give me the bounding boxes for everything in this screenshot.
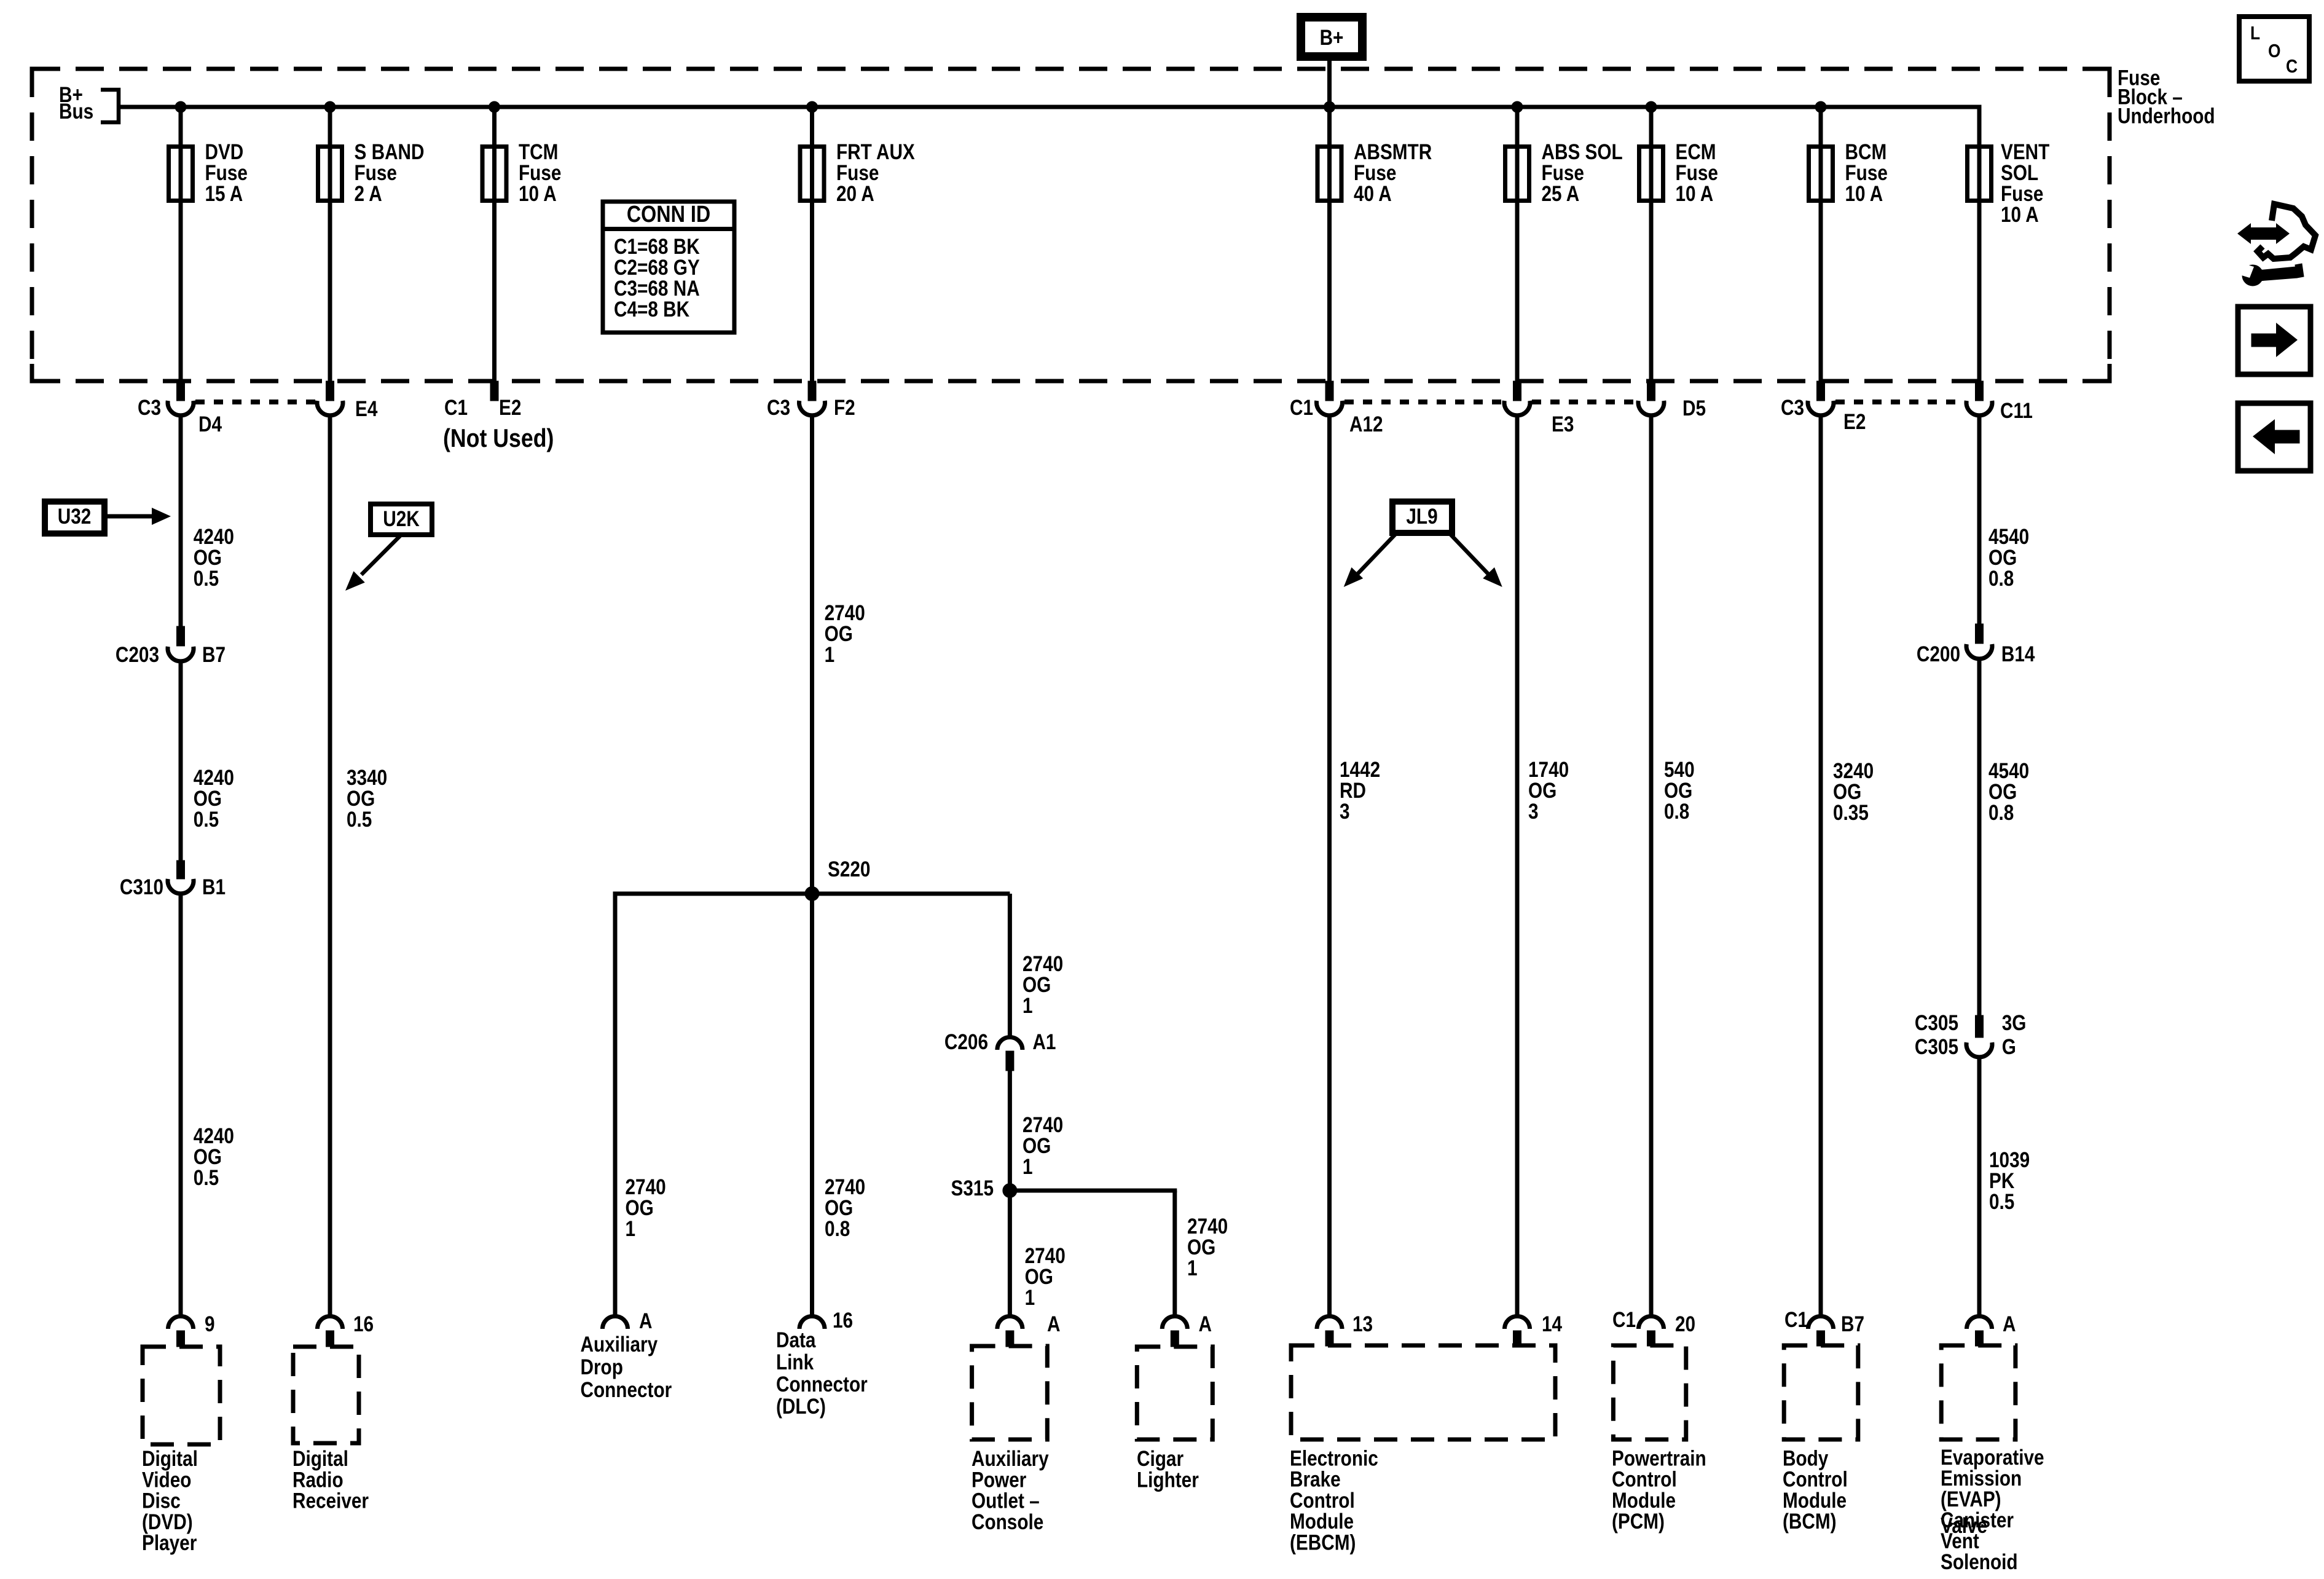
svg-text:CONN ID: CONN ID (627, 202, 710, 227)
component box EBCM (1291, 1345, 1555, 1439)
svg-text:SOL: SOL (2001, 161, 2038, 185)
pin stub into EBCM (13) (1325, 1331, 1333, 1346)
terminal at digital radio receiver pin 16 (318, 1317, 343, 1329)
LOC reference box (2239, 17, 2309, 81)
svg-text:1740: 1740 (1528, 758, 1569, 782)
svg-text:OG: OG (1023, 973, 1051, 997)
svg-text:(PCM): (PCM) (1612, 1510, 1665, 1534)
svg-text:Electronic: Electronic (1290, 1446, 1378, 1470)
svg-text:Radio: Radio (292, 1468, 343, 1492)
connector terminal DVD (168, 401, 194, 415)
svg-text:2740: 2740 (825, 1175, 865, 1199)
junction bus / BCM fuse wire (1815, 101, 1826, 112)
fuse ABSMTR 40 A (1317, 147, 1341, 201)
svg-text:2740: 2740 (825, 601, 865, 625)
fuse block underhood dashed box top border (32, 67, 2110, 71)
svg-text:Data: Data (776, 1328, 816, 1352)
fuse block underhood dashed box right border (2108, 69, 2112, 381)
svg-text:C3: C3 (1781, 396, 1804, 420)
component box cigar lighter (1137, 1347, 1212, 1439)
svg-text:0.35: 0.35 (1833, 801, 1869, 825)
fuse ABS SOL 25 A (1505, 147, 1529, 201)
connector pin stub SBAND (326, 381, 334, 401)
svg-text:Fuse: Fuse (1845, 161, 1888, 185)
svg-text:Fuse: Fuse (205, 161, 248, 185)
wire VENTSOL fuse column (1977, 107, 1982, 381)
connector terminal VENTSOL (1966, 401, 1992, 415)
svg-text:U32: U32 (58, 505, 92, 529)
connector pin stub C203 (177, 626, 185, 646)
svg-text:0.8: 0.8 (825, 1217, 850, 1241)
component box BCM (1784, 1345, 1858, 1439)
svg-text:Control: Control (1783, 1467, 1848, 1491)
component box auxiliary power outlet - console (972, 1346, 1048, 1439)
svg-text:OG: OG (194, 546, 222, 570)
wire C206 to S315 (1008, 1071, 1012, 1191)
svg-text:U2K: U2K (383, 507, 420, 531)
U32 option box (45, 502, 104, 534)
svg-text:Underhood: Underhood (2118, 104, 2215, 128)
svg-text:OG: OG (194, 1145, 222, 1169)
wire S220 horizontal (613, 892, 1010, 896)
svg-text:4540: 4540 (1988, 525, 2029, 549)
pin stub into cigar lighter (1171, 1331, 1179, 1347)
dotted connector group line A12-E3-D5 (1345, 400, 1502, 404)
svg-text:OG: OG (1025, 1265, 1053, 1289)
wire down to cigar lighter (1172, 1191, 1177, 1315)
svg-text:Power: Power (972, 1468, 1027, 1492)
svg-text:C310: C310 (120, 875, 163, 899)
svg-text:10 A: 10 A (1845, 182, 1883, 206)
fuse block box corner pieces (32, 69, 49, 86)
svg-text:C200: C200 (1917, 642, 1960, 666)
svg-text:1442: 1442 (1340, 758, 1380, 782)
connector terminal ABSSOL (1504, 401, 1530, 415)
svg-text:Link: Link (776, 1350, 814, 1374)
junction bus / TCM fuse wire (489, 101, 500, 112)
svg-text:Fuse: Fuse (1676, 161, 1718, 185)
svg-text:3G: 3G (2002, 1011, 2027, 1035)
svg-text:Drop: Drop (581, 1355, 623, 1379)
connector terminal ECM (1638, 401, 1664, 415)
svg-text:B7: B7 (202, 643, 226, 667)
svg-text:C4=8 BK: C4=8 BK (614, 297, 690, 321)
svg-text:C1: C1 (1612, 1308, 1636, 1332)
wire BCM fuse column (1819, 107, 1823, 381)
JL9 arrow left (1356, 534, 1396, 575)
B+ bus bracket (101, 90, 119, 122)
svg-text:B+: B+ (1320, 26, 1344, 50)
svg-text:2 A: 2 A (355, 182, 382, 206)
JL9 arrow right (1450, 534, 1490, 575)
svg-text:(DVD): (DVD) (142, 1510, 193, 1534)
svg-text:OG: OG (1988, 780, 2017, 804)
svg-text:Outlet –: Outlet – (972, 1489, 1040, 1513)
svg-text:FRT AUX: FRT AUX (836, 140, 915, 164)
svg-text:S BAND: S BAND (355, 140, 425, 164)
connector pin stub ABSSOL (1513, 381, 1521, 401)
svg-text:Module: Module (1783, 1489, 1847, 1513)
connector terminal SBAND (317, 401, 343, 415)
svg-text:RD: RD (1340, 779, 1366, 803)
fuse block underhood dashed box bottom border (32, 379, 2110, 384)
terminal at auxiliary drop connector pin A (603, 1317, 628, 1329)
svg-text:C305: C305 (1915, 1011, 1958, 1035)
svg-text:9: 9 (205, 1312, 215, 1336)
svg-text:(Not Used): (Not Used) (443, 424, 554, 452)
svg-text:Emission: Emission (1941, 1467, 2022, 1490)
connector pin stub ECM (1647, 381, 1655, 401)
splice S220 (805, 887, 819, 901)
svg-text:0.5: 0.5 (194, 567, 219, 591)
svg-text:OG: OG (626, 1196, 654, 1220)
svg-text:2740: 2740 (626, 1175, 666, 1199)
vehicle outline icon (2258, 204, 2315, 259)
component box digital radio receiver (293, 1347, 359, 1443)
pin stub into EBCM (14) (1513, 1331, 1521, 1346)
svg-text:B7: B7 (1841, 1312, 1864, 1336)
svg-text:0.5: 0.5 (194, 808, 219, 832)
svg-text:Player: Player (142, 1531, 197, 1555)
fuse BCM 10 A (1809, 147, 1833, 201)
svg-text:(BCM): (BCM) (1783, 1510, 1837, 1534)
svg-text:S315: S315 (951, 1176, 994, 1200)
junction bus / ABSMTR fuse wire (1324, 101, 1335, 112)
component box PCM (1613, 1345, 1686, 1439)
fuse TCM 10 A (482, 147, 506, 201)
wire C305 to EVAP solenoid (1977, 1058, 1982, 1315)
svg-text:3340: 3340 (347, 766, 387, 790)
svg-text:Solenoid: Solenoid (1941, 1550, 2018, 1574)
svg-text:16: 16 (833, 1309, 853, 1333)
svg-text:1: 1 (1023, 994, 1033, 1018)
svg-text:0.5: 0.5 (1989, 1190, 2014, 1214)
svg-text:Receiver: Receiver (292, 1489, 369, 1513)
terminal at DLC pin 16 (799, 1317, 825, 1329)
svg-text:ABS SOL: ABS SOL (1542, 140, 1623, 164)
pin stub into auxiliary power outlet (1006, 1331, 1014, 1347)
connector terminal ABSMTR (1317, 401, 1343, 415)
svg-text:1: 1 (1025, 1286, 1035, 1310)
svg-text:A: A (1199, 1312, 1212, 1336)
svg-text:C1: C1 (1784, 1308, 1808, 1332)
wire S315 to auxiliary power outlet (1008, 1191, 1012, 1315)
svg-text:2740: 2740 (1187, 1215, 1228, 1238)
terminal at DVD player pin 9 (168, 1317, 194, 1329)
svg-text:OG: OG (1833, 780, 1861, 804)
wrench icon (2242, 265, 2263, 286)
svg-text:L: L (2250, 23, 2260, 44)
vehicle/wrench icon double arrow (2249, 227, 2279, 240)
svg-text:ABSMTR: ABSMTR (1354, 140, 1432, 164)
svg-text:TCM: TCM (519, 140, 558, 164)
component box EVAP canister vent solenoid (1941, 1345, 2016, 1439)
fuse S BAND 2 A (318, 147, 342, 201)
in-line connector C305 3G (1966, 1042, 1992, 1057)
pin stub into digital radio receiver (326, 1331, 334, 1347)
connector pin stub DVD (177, 381, 185, 401)
svg-text:Video: Video (142, 1468, 191, 1492)
wire C200 to C305 (1977, 660, 1982, 1015)
svg-text:D5: D5 (1682, 396, 1706, 420)
fuse block underhood dashed box left border (30, 69, 34, 381)
wire DVD C3-D4 to C203 (179, 417, 183, 626)
svg-text:Control: Control (1290, 1489, 1355, 1513)
wire C203 to C310 (179, 663, 183, 860)
pin stub into EVAP solenoid (1976, 1331, 1984, 1346)
svg-text:0.8: 0.8 (1664, 800, 1689, 824)
svg-text:Cigar: Cigar (1137, 1447, 1184, 1471)
wire TCM fuse column (492, 107, 497, 381)
svg-text:C1=68 BK: C1=68 BK (614, 235, 700, 259)
svg-text:A: A (639, 1309, 652, 1333)
junction bus / DVD fuse wire (175, 101, 186, 112)
splice S315 (1003, 1184, 1017, 1198)
wire FRTAUX fuse column (810, 107, 814, 381)
svg-text:(EBCM): (EBCM) (1290, 1530, 1356, 1554)
svg-text:A: A (1047, 1312, 1060, 1336)
terminal at EBCM pin 13 (1317, 1317, 1342, 1329)
svg-text:C11: C11 (2000, 399, 2033, 423)
svg-text:2740: 2740 (1023, 1113, 1063, 1137)
dotted connector group line D4-E4 (195, 400, 315, 404)
svg-text:Module: Module (1290, 1510, 1354, 1534)
junction bus / FRTAUX fuse wire (807, 101, 818, 112)
svg-text:E2: E2 (1843, 410, 1866, 434)
svg-text:Disc: Disc (142, 1489, 181, 1513)
svg-text:E3: E3 (1552, 412, 1574, 436)
JL9 option box (1392, 502, 1452, 533)
svg-text:C3: C3 (767, 396, 790, 420)
terminal at BCM pin B7 (1808, 1317, 1834, 1329)
in-line connector C203 B7 (168, 647, 194, 661)
svg-text:Connector: Connector (581, 1378, 672, 1402)
wire ECM fuse column (1649, 107, 1654, 381)
svg-text:A12: A12 (1349, 412, 1383, 436)
wire S220 to C206 (1008, 894, 1012, 1037)
svg-text:C1: C1 (1290, 396, 1313, 420)
pin stub into BCM (1817, 1331, 1825, 1346)
wire B+ box to bus (1327, 61, 1332, 107)
B+ battery terminal box (1301, 17, 1362, 57)
svg-text:1: 1 (1023, 1155, 1033, 1179)
connector pin stub VENTSOL (1976, 381, 1984, 401)
svg-text:C305: C305 (1915, 1035, 1958, 1059)
svg-text:1: 1 (626, 1217, 636, 1241)
connector pin stub C305 (1976, 1015, 1984, 1038)
svg-text:Fuse: Fuse (355, 161, 397, 185)
svg-text:G: G (2002, 1035, 2016, 1059)
wire SBAND fuse column (328, 107, 332, 381)
svg-text:2740: 2740 (1023, 952, 1063, 976)
svg-text:Fuse: Fuse (836, 161, 879, 185)
svg-text:D4: D4 (198, 412, 222, 436)
pin stub into DVD player (177, 1331, 185, 1347)
U2K option box (371, 504, 432, 535)
svg-text:C3: C3 (138, 396, 161, 420)
connector pin stub C200 (1976, 624, 1984, 644)
svg-text:1039: 1039 (1989, 1148, 2030, 1172)
svg-text:Brake: Brake (1290, 1467, 1341, 1491)
junction bus / ECM fuse wire (1646, 101, 1657, 112)
in-line connector C310 B1 (168, 879, 194, 894)
wire E2 to BCM pin B7 (1819, 417, 1823, 1315)
U32 arrow (108, 514, 154, 519)
wire S315 horizontal to cigar lighter (1010, 1189, 1177, 1193)
svg-text:40 A: 40 A (1354, 182, 1392, 206)
svg-text:(DLC): (DLC) (776, 1395, 826, 1419)
svg-text:OG: OG (1187, 1235, 1215, 1259)
svg-text:Fuse: Fuse (1542, 161, 1584, 185)
svg-text:E4: E4 (355, 397, 377, 421)
svg-text:Module: Module (1612, 1489, 1676, 1513)
svg-text:Powertrain: Powertrain (1612, 1446, 1706, 1470)
svg-text:Digital: Digital (142, 1447, 198, 1471)
svg-text:1: 1 (1187, 1256, 1198, 1280)
svg-text:OG: OG (825, 1196, 853, 1220)
svg-text:4240: 4240 (194, 766, 234, 790)
svg-text:16: 16 (353, 1312, 374, 1336)
wire E3 to EBCM pin 14 (1515, 417, 1520, 1315)
svg-text:4240: 4240 (194, 1124, 234, 1148)
svg-text:10 A: 10 A (1676, 182, 1714, 206)
connector pin stub C206 (1006, 1051, 1014, 1071)
wire A12 to EBCM pin 13 (1327, 417, 1332, 1315)
svg-text:C3=68 NA: C3=68 NA (614, 277, 700, 301)
svg-text:OG: OG (1528, 779, 1557, 803)
svg-text:Evaporative: Evaporative (1941, 1446, 2044, 1470)
wire DVD fuse column (179, 107, 183, 381)
svg-text:0.8: 0.8 (1988, 801, 2014, 825)
svg-text:3240: 3240 (1833, 759, 1874, 783)
svg-text:Control: Control (1612, 1467, 1677, 1491)
wire S220 to DLC (810, 894, 814, 1315)
wire B+ bus horizontal (119, 105, 1982, 109)
wire ABSMTR fuse column (1327, 107, 1332, 381)
svg-text:0.8: 0.8 (1988, 567, 2014, 591)
previous page arrow box (2238, 403, 2310, 471)
svg-text:Connector: Connector (776, 1372, 868, 1396)
junction bus / ABSSOL fuse wire (1512, 101, 1523, 112)
svg-text:OG: OG (347, 787, 375, 811)
svg-text:2740: 2740 (1025, 1244, 1066, 1268)
svg-text:15 A: 15 A (205, 182, 243, 206)
svg-text:Body: Body (1783, 1446, 1828, 1470)
svg-text:540: 540 (1664, 758, 1695, 782)
svg-text:Digital: Digital (292, 1447, 348, 1471)
wire C310 to DVD player (179, 895, 183, 1315)
svg-text:F2: F2 (834, 396, 855, 420)
svg-text:OG: OG (1988, 546, 2017, 570)
svg-text:10 A: 10 A (519, 182, 557, 206)
connector pin stub FRTAUX (808, 381, 816, 401)
svg-text:C2=68 GY: C2=68 GY (614, 256, 700, 280)
svg-text:B1: B1 (202, 875, 226, 899)
pin stub into PCM (1647, 1331, 1655, 1346)
junction bus / SBAND fuse wire (324, 101, 336, 112)
component box DVD player (143, 1347, 220, 1444)
svg-text:Lighter: Lighter (1137, 1468, 1199, 1492)
svg-text:ECM: ECM (1676, 140, 1716, 164)
svg-text:OG: OG (825, 622, 853, 646)
svg-text:Vent: Vent (1941, 1529, 1979, 1553)
svg-text:1: 1 (825, 643, 835, 667)
svg-text:B14: B14 (2001, 642, 2035, 666)
svg-text:25 A: 25 A (1542, 182, 1580, 206)
svg-text:Fuse: Fuse (2001, 182, 2043, 206)
svg-text:C203: C203 (116, 643, 159, 667)
svg-text:O: O (2268, 41, 2280, 61)
connector terminal BCM (1808, 401, 1834, 415)
svg-text:C: C (2286, 56, 2298, 77)
connector terminal FRTAUX (799, 401, 825, 415)
svg-text:13: 13 (1352, 1312, 1373, 1336)
svg-text:OG: OG (1664, 779, 1692, 803)
svg-text:20 A: 20 A (836, 182, 874, 206)
next page arrow box (2238, 307, 2310, 374)
wire F2 to S220 (810, 417, 814, 894)
svg-text:E2: E2 (499, 396, 521, 420)
svg-text:C206: C206 (944, 1030, 988, 1054)
svg-text:S220: S220 (828, 857, 870, 881)
connector pin stub C310 (177, 860, 185, 879)
in-line connector C206 A1 (997, 1037, 1023, 1050)
svg-text:Bus: Bus (59, 100, 93, 124)
svg-text:Console: Console (972, 1510, 1043, 1534)
wire S220 to auxiliary drop connector (613, 894, 618, 1315)
in-line connector C200 B14 (1966, 644, 1992, 659)
svg-text:BCM: BCM (1845, 140, 1887, 164)
wire ABSSOL fuse column (1515, 107, 1520, 381)
svg-text:OG: OG (194, 787, 222, 811)
svg-text:0.5: 0.5 (194, 1166, 219, 1190)
wire E4 to digital radio receiver (328, 417, 332, 1315)
U2K arrow (361, 536, 400, 575)
terminal at cigar lighter pin A (1162, 1317, 1187, 1329)
svg-text:Fuse: Fuse (1354, 161, 1396, 185)
svg-text:A: A (2003, 1312, 2016, 1336)
connector pin stub BCM (1817, 381, 1825, 401)
svg-text:VENT: VENT (2001, 140, 2049, 164)
svg-text:0.5: 0.5 (347, 808, 372, 832)
svg-text:Auxiliary: Auxiliary (972, 1447, 1049, 1471)
connector pin stub ABSMTR (1325, 381, 1333, 401)
terminal at EVAP vent solenoid pin A (1967, 1317, 1992, 1329)
svg-text:14: 14 (1542, 1312, 1562, 1336)
terminal at auxiliary power outlet pin A (997, 1317, 1023, 1329)
svg-text:PK: PK (1989, 1169, 2015, 1193)
svg-text:A1: A1 (1032, 1030, 1056, 1054)
svg-text:10 A: 10 A (2001, 203, 2039, 227)
terminal at PCM pin 20 (1639, 1317, 1664, 1329)
svg-text:3: 3 (1528, 800, 1539, 824)
fuse DVD 15 A (169, 147, 193, 201)
svg-text:OG: OG (1023, 1134, 1051, 1158)
fuse VENT SOL 10 A (1968, 147, 1992, 201)
svg-text:3: 3 (1340, 800, 1350, 824)
dotted connector group line E2-C11 (1835, 400, 1965, 404)
terminal at EBCM pin 14 (1505, 1317, 1530, 1329)
svg-text:C1: C1 (444, 396, 468, 420)
svg-text:20: 20 (1675, 1312, 1695, 1336)
svg-text:Auxiliary: Auxiliary (581, 1333, 658, 1357)
fuse ECM 10 A (1639, 147, 1663, 201)
connector pin stub TCM (not used) (490, 381, 498, 401)
CONN ID table box (603, 202, 734, 333)
fuse FRT AUX 20 A (800, 147, 824, 201)
svg-text:Fuse: Fuse (519, 161, 561, 185)
svg-text:4540: 4540 (1988, 759, 2029, 783)
